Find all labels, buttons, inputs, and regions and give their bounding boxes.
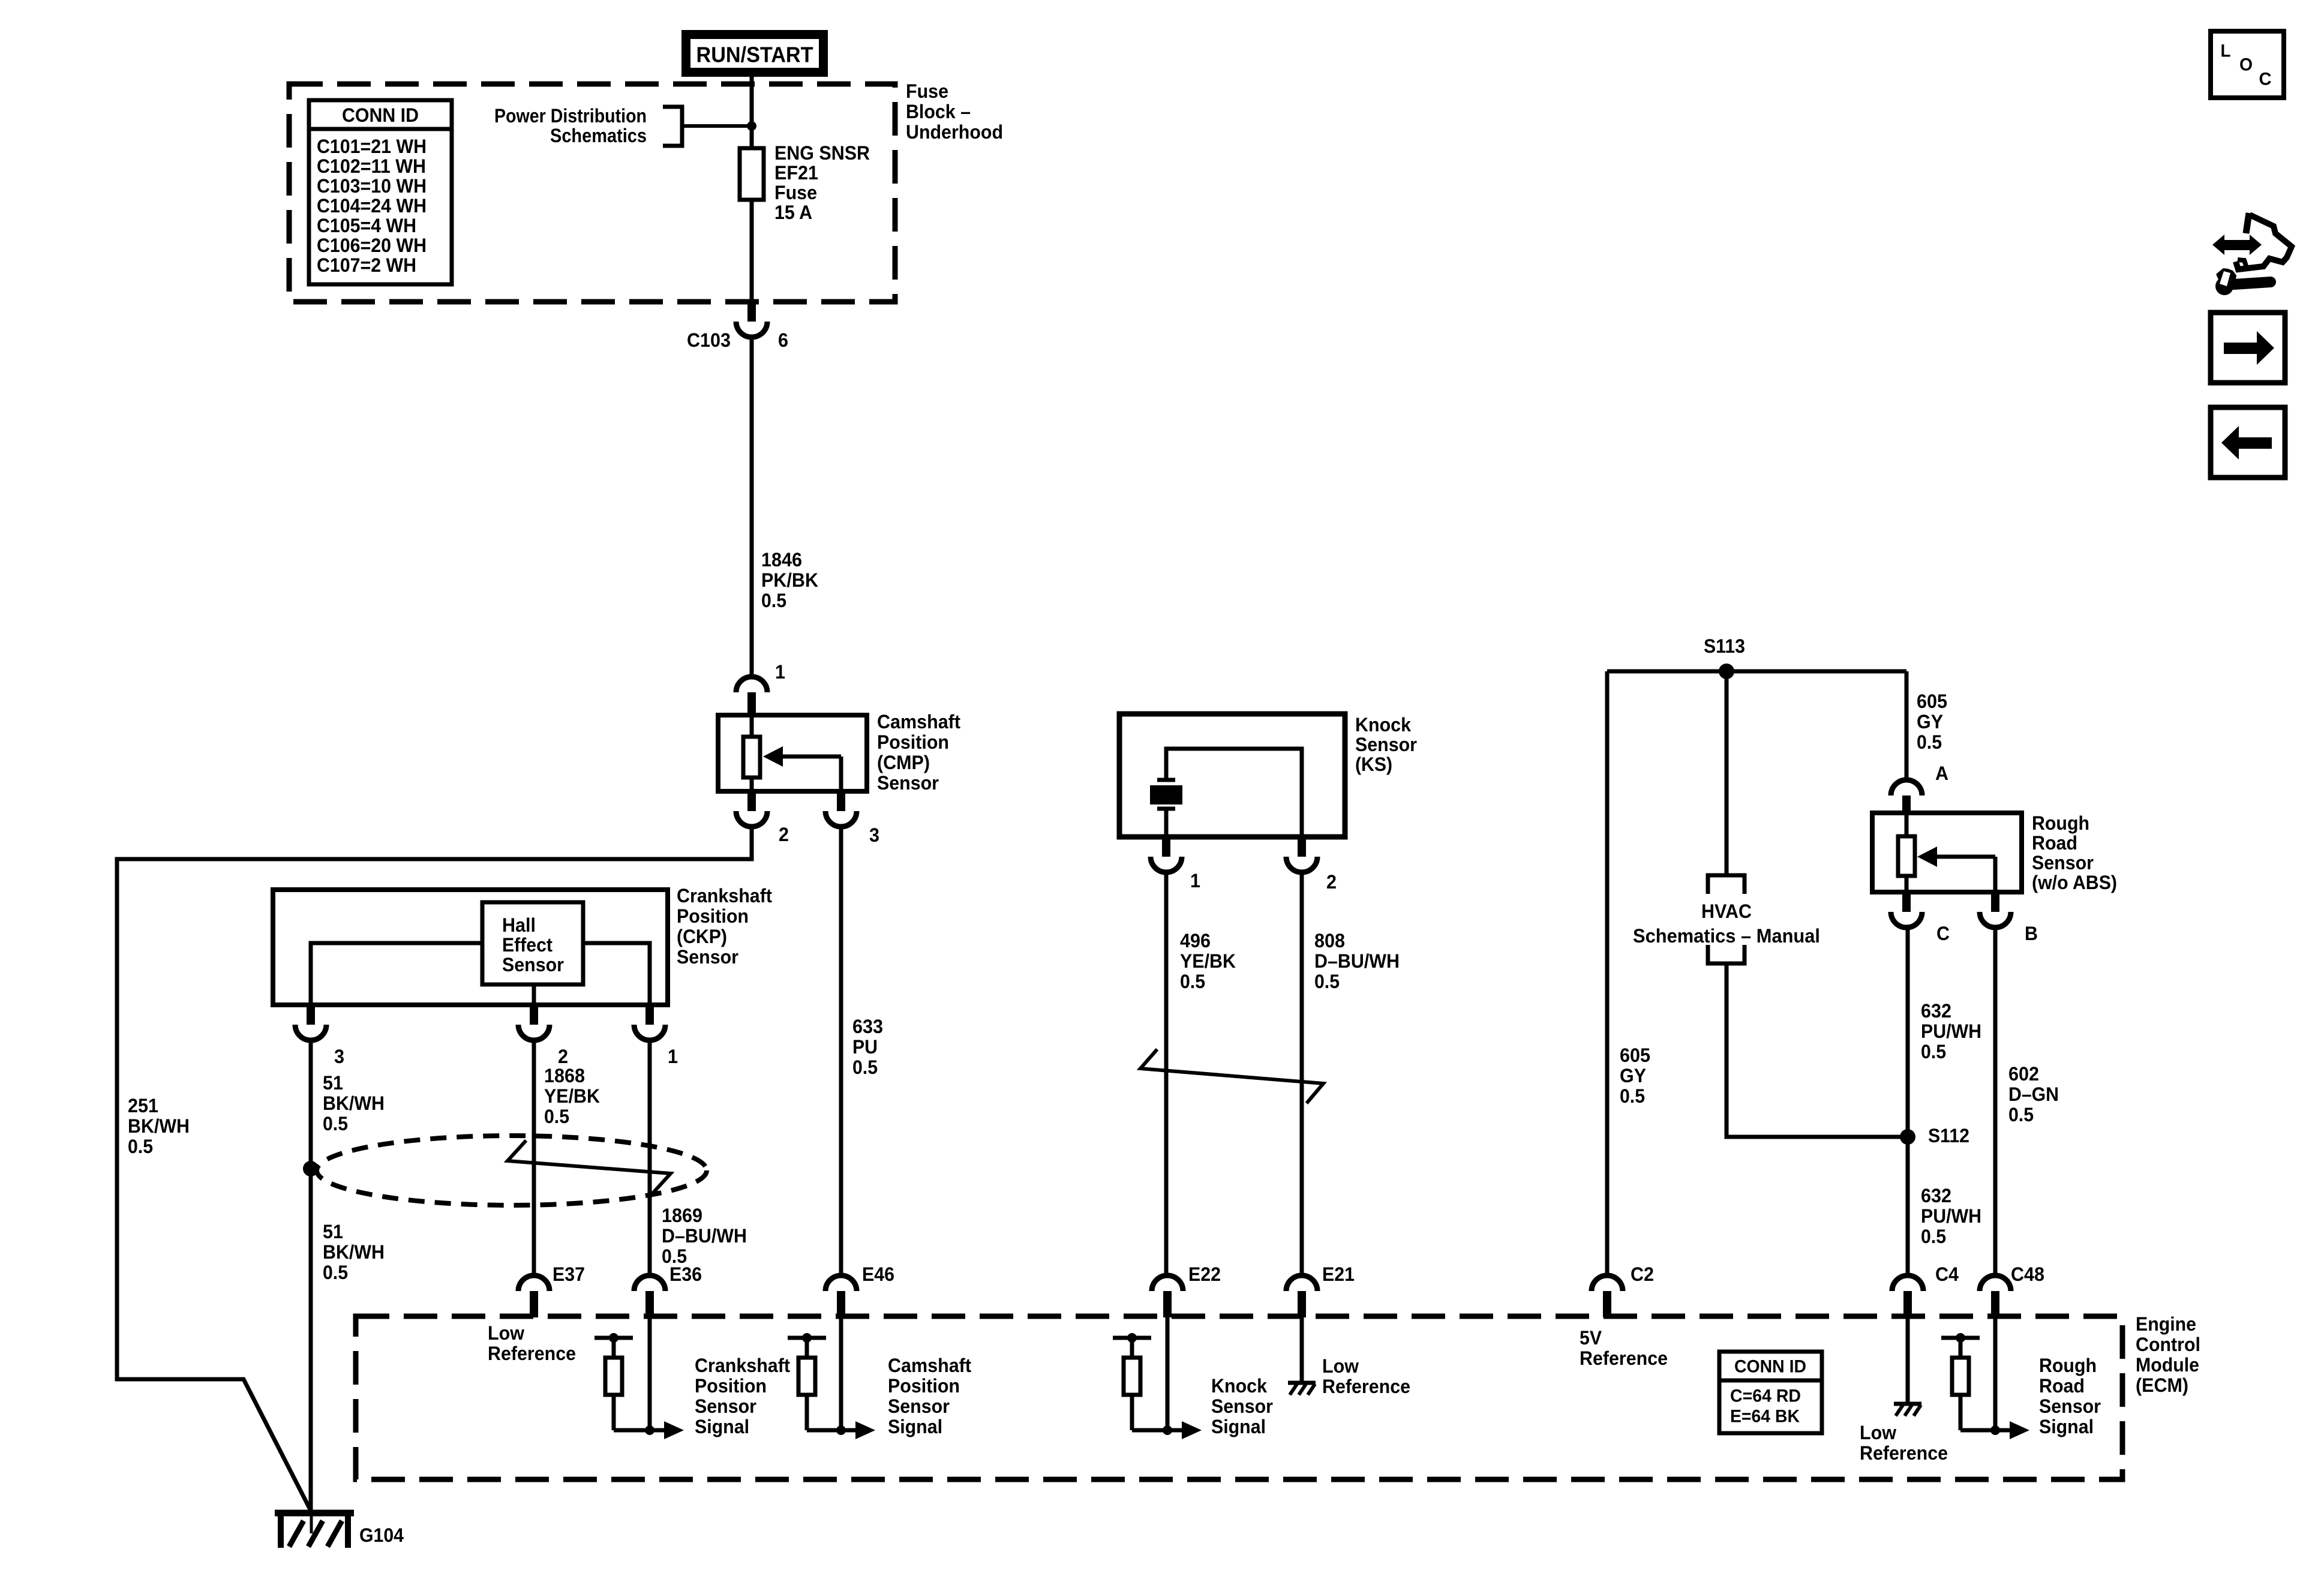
label: circuit 602 D-GN 0.5 — [2008, 1063, 2059, 1125]
svg-text:D–GN: D–GN — [2008, 1083, 2059, 1105]
svg-text:602: 602 — [2008, 1063, 2039, 1085]
wire: C4 to internal ground — [1906, 1317, 1910, 1404]
crankshaft position sensor signal input (E36): internal pull-up resistor — [594, 1333, 664, 1430]
label: Knock Sensor (KS) — [1355, 714, 1417, 775]
svg-text:633: 633 — [852, 1016, 883, 1037]
knock sensor signal input (E22): signal wire into ECM with junction and arrow — [1163, 1317, 1202, 1439]
wire 51 BK/WH: CKP pin 3 to G104 — [309, 1040, 313, 1512]
KS internal piezo element — [1150, 749, 1302, 837]
svg-text:YE/BK: YE/BK — [1180, 950, 1236, 972]
junction dot on wire 51 at shield — [303, 1161, 319, 1176]
svg-text:1869: 1869 — [662, 1205, 702, 1226]
svg-text:3: 3 — [869, 824, 879, 846]
svg-text:C: C — [1936, 923, 1950, 944]
svg-text:1846: 1846 — [761, 549, 802, 571]
svg-text:Sensor: Sensor — [888, 1395, 950, 1417]
svg-text:Reference: Reference — [1580, 1347, 1668, 1369]
label: circuit 1869 D-BU/WH 0.5 — [662, 1205, 747, 1267]
svg-text:(w/o ABS): (w/o ABS) — [2032, 872, 2117, 893]
svg-text:1868: 1868 — [544, 1065, 585, 1086]
label: knock sensor signal input (E22) — [1211, 1375, 1273, 1437]
svg-text:HVAC: HVAC — [1701, 900, 1752, 922]
svg-text:Rough: Rough — [2032, 812, 2089, 834]
svg-text:51: 51 — [323, 1221, 343, 1242]
knock sensor (KS) box — [1119, 714, 1345, 837]
svg-text:632: 632 — [1921, 1000, 1951, 1022]
label: Low Reference (E21) — [1322, 1355, 1410, 1397]
off-page reference bracket (power distribution) — [663, 107, 682, 146]
LOC icon box — [2211, 31, 2284, 98]
svg-text:E=64 BK: E=64 BK — [1730, 1407, 1800, 1427]
svg-text:Block –: Block – — [906, 101, 971, 122]
CONN ID table rows — [317, 136, 427, 276]
connector ECM terminal E21 — [1286, 1275, 1317, 1317]
wire: HVAC reference down to S112 — [1727, 963, 1908, 1137]
svg-text:E36: E36 — [669, 1263, 702, 1285]
svg-text:Schematics: Schematics — [550, 125, 647, 146]
svg-text:Signal: Signal — [888, 1416, 942, 1437]
hall effect sensor box — [482, 902, 583, 984]
svg-text:1: 1 — [1190, 870, 1200, 891]
svg-text:BK/WH: BK/WH — [128, 1115, 190, 1137]
svg-text:2: 2 — [1326, 871, 1337, 893]
svg-text:Fuse: Fuse — [906, 80, 948, 102]
label: circuit 496 YE/BK 0.5 — [1180, 930, 1236, 992]
svg-text:C104=24 WH: C104=24 WH — [317, 195, 427, 217]
wire: RUN/START down through fuse to C103 — [750, 77, 754, 302]
label: circuit 51 BK/WH 0.5 (lower) — [323, 1221, 385, 1283]
svg-text:15 A: 15 A — [774, 202, 812, 223]
wire 496 YE/BK: KS pin 1 to E22 — [1164, 872, 1169, 1277]
svg-text:PK/BK: PK/BK — [761, 569, 818, 591]
svg-text:G104: G104 — [359, 1524, 404, 1546]
svg-text:Engine: Engine — [2136, 1313, 2196, 1335]
svg-text:6: 6 — [778, 329, 788, 351]
splice S113 — [1719, 664, 1734, 679]
svg-text:Signal: Signal — [695, 1416, 749, 1437]
label: circuit 51 BK/WH 0.5 (upper) — [323, 1072, 385, 1134]
label: Engine Control Module (ECM) — [2136, 1313, 2200, 1396]
svg-text:E21: E21 — [1322, 1263, 1355, 1285]
svg-text:Camshaft: Camshaft — [877, 711, 960, 733]
svg-text:Sensor: Sensor — [677, 946, 738, 968]
svg-text:Reference: Reference — [1322, 1376, 1410, 1397]
svg-text:Sensor: Sensor — [1211, 1395, 1273, 1417]
connector ECM terminal E46 — [825, 1275, 857, 1317]
svg-text:S112: S112 — [1928, 1125, 1969, 1146]
vehicle/wrench icon — [2212, 213, 2292, 295]
label: Fuse Block - Underhood — [906, 80, 1003, 143]
svg-text:PU: PU — [852, 1036, 878, 1058]
wire 808 D-BU/WH: KS pin 2 to E21 — [1300, 872, 1304, 1277]
svg-text:Position: Position — [695, 1375, 767, 1397]
connector CMP pin 3 — [825, 791, 857, 827]
fuse block - underhood (dashed box) — [289, 84, 895, 302]
svg-text:BK/WH: BK/WH — [323, 1241, 385, 1263]
rough road sensor signal input (C48): internal pull-up resistor — [1941, 1333, 2010, 1430]
shield ellipse (dashed) around CKP wires — [317, 1136, 707, 1205]
fuse ENG SNSR EF21 15A — [740, 148, 764, 200]
ground symbol (E21 low reference) — [1288, 1383, 1316, 1395]
svg-text:Crankshaft: Crankshaft — [677, 885, 772, 906]
svg-text:E46: E46 — [862, 1263, 894, 1285]
connector RRS pin C — [1891, 892, 1922, 927]
connector ECM terminal E36 — [634, 1275, 665, 1317]
svg-text:Crankshaft: Crankshaft — [695, 1355, 790, 1376]
svg-text:605: 605 — [1917, 691, 1947, 712]
svg-text:PU/WH: PU/WH — [1921, 1205, 1981, 1227]
svg-text:C4: C4 — [1935, 1263, 1959, 1285]
svg-text:Sensor: Sensor — [2032, 852, 2094, 873]
svg-text:GY: GY — [1620, 1065, 1646, 1086]
forward arrow icon — [2211, 313, 2285, 383]
label: circuit 633 PU 0.5 — [852, 1016, 883, 1078]
label: circuit 605 GY 0.5 (left) — [1620, 1044, 1650, 1107]
connector ECM terminal C2 — [1592, 1275, 1623, 1317]
svg-text:0.5: 0.5 — [128, 1136, 153, 1157]
crankshaft position (CKP) sensor box — [273, 890, 668, 1005]
svg-text:Control: Control — [2136, 1334, 2200, 1355]
rough road sensor signal input (C48): signal wire into ECM with junction and arrow — [1990, 1317, 2029, 1439]
engine control module (ECM) dashed box — [356, 1316, 2122, 1479]
label: ENG SNSR EF21 Fuse 15 A — [774, 142, 870, 223]
svg-text:YE/BK: YE/BK — [544, 1085, 600, 1107]
svg-text:Sensor: Sensor — [1355, 734, 1417, 755]
connector ECM terminal C4 — [1892, 1275, 1923, 1317]
svg-text:RUN/START: RUN/START — [696, 43, 813, 67]
svg-text:0.5: 0.5 — [544, 1106, 569, 1127]
svg-text:251: 251 — [128, 1095, 158, 1116]
label: circuit 808 D-BU/WH 0.5 — [1314, 930, 1400, 992]
svg-text:(ECM): (ECM) — [2136, 1374, 2188, 1396]
label: Crankshaft Position (CKP) Sensor — [677, 885, 772, 968]
svg-text:Road: Road — [2032, 832, 2077, 854]
svg-text:Signal: Signal — [1211, 1416, 1266, 1437]
off-page reference bracket (HVAC bottom) — [1708, 945, 1744, 963]
connector KS pin 2 — [1286, 837, 1317, 872]
CKP internal wiring — [311, 943, 650, 1005]
svg-text:605: 605 — [1620, 1044, 1650, 1066]
ground symbol (C4 low reference) — [1894, 1404, 1921, 1416]
svg-text:0.5: 0.5 — [2008, 1104, 2034, 1125]
svg-text:496: 496 — [1180, 930, 1211, 951]
svg-text:Sensor: Sensor — [2039, 1395, 2101, 1417]
label: Hall Effect Sensor — [502, 914, 564, 975]
label: crankshaft position sensor signal input (E36) — [695, 1355, 790, 1437]
switch RUN/START — [681, 30, 828, 77]
svg-text:0.5: 0.5 — [1921, 1041, 1946, 1062]
svg-text:0.5: 0.5 — [323, 1262, 348, 1283]
label: circuit 632 PU/WH 0.5 (upper) — [1921, 1000, 1981, 1062]
svg-text:GY: GY — [1917, 711, 1943, 733]
wire: bracket to RUN/START feed — [682, 124, 752, 128]
twisted pair marker (CKP wires) — [508, 1140, 671, 1194]
svg-text:Reference: Reference — [488, 1343, 576, 1364]
svg-text:C106=20 WH: C106=20 WH — [317, 235, 427, 256]
svg-text:L: L — [2221, 41, 2231, 61]
svg-text:C=64 RD: C=64 RD — [1730, 1386, 1801, 1406]
wire 1846 PK/BK 0.5: C103 to CMP pin 1 — [750, 337, 754, 677]
svg-text:S113: S113 — [1704, 635, 1745, 657]
svg-text:C107=2 WH: C107=2 WH — [317, 254, 416, 276]
camshaft position (CMP) sensor box — [718, 715, 867, 791]
svg-text:1: 1 — [668, 1046, 678, 1067]
svg-text:Low: Low — [488, 1322, 524, 1344]
svg-text:Position: Position — [888, 1375, 960, 1397]
connector CKP pin 2 — [518, 1005, 550, 1040]
label: circuit 251 BK/WH 0.5 — [128, 1095, 190, 1157]
connector CMP pin 1 — [736, 677, 767, 715]
svg-text:Hall: Hall — [502, 914, 536, 936]
svg-text:A: A — [1935, 763, 1948, 784]
svg-text:0.5: 0.5 — [1917, 731, 1942, 753]
connector RRS pin A — [1891, 780, 1922, 813]
label: 5V Reference (C2) — [1580, 1327, 1668, 1369]
camshaft position sensor signal input (E46): internal pull-up resistor — [788, 1333, 855, 1430]
svg-text:C103=10 WH: C103=10 WH — [317, 175, 427, 197]
svg-text:(CMP): (CMP) — [877, 752, 930, 773]
svg-text:C102=11 WH: C102=11 WH — [317, 155, 426, 177]
svg-text:C48: C48 — [2011, 1263, 2044, 1285]
connector C103 pin 6 — [736, 302, 767, 337]
svg-text:2: 2 — [779, 824, 789, 845]
svg-text:51: 51 — [323, 1072, 343, 1094]
label: circuit 1846 PK/BK 0.5 — [761, 549, 818, 611]
label: camshaft position sensor signal input (E46) — [888, 1355, 971, 1437]
wire 251 BK/WH: CMP pin 2 left and down to G104 — [117, 827, 752, 1512]
wire: E21 to internal ground — [1300, 1317, 1304, 1383]
svg-text:Sensor: Sensor — [695, 1395, 756, 1417]
connector ECM terminal E22 — [1152, 1275, 1183, 1317]
svg-text:C105=4 WH: C105=4 WH — [317, 215, 416, 236]
svg-text:2: 2 — [558, 1046, 568, 1067]
svg-text:Low: Low — [1322, 1355, 1359, 1377]
wire: 5V reference bus (S113 horizontal) — [1607, 670, 1906, 674]
svg-text:E22: E22 — [1188, 1263, 1221, 1285]
rough road sensor box — [1872, 813, 2022, 892]
svg-text:Schematics – Manual: Schematics – Manual — [1633, 925, 1820, 947]
CMP internal variable sensor element — [743, 715, 841, 791]
wire 1868 YE/BK: CKP pin 2 to E37 — [532, 1040, 536, 1277]
svg-text:Road: Road — [2039, 1375, 2085, 1397]
connector KS pin 1 — [1151, 837, 1182, 872]
svg-text:Position: Position — [677, 905, 749, 927]
svg-text:B: B — [2025, 923, 2038, 944]
connector ECM terminal C48 — [1980, 1275, 2011, 1317]
svg-text:3: 3 — [334, 1046, 344, 1067]
svg-text:Sensor: Sensor — [877, 772, 939, 794]
label: Rough Road Sensor (w/o ABS) — [2032, 812, 2117, 893]
svg-text:0.5: 0.5 — [1314, 971, 1340, 992]
connector RRS pin B — [1980, 892, 2011, 927]
svg-text:Module: Module — [2136, 1354, 2199, 1376]
twisted pair marker (KS wires) — [1140, 1049, 1323, 1103]
svg-text:Reference: Reference — [1860, 1442, 1948, 1464]
svg-text:E37: E37 — [553, 1263, 585, 1285]
label: circuit 605 GY 0.5 (right) — [1917, 691, 1947, 753]
label: circuit 1868 YE/BK 0.5 — [544, 1065, 600, 1127]
label: Low Reference (C4) — [1860, 1422, 1948, 1464]
svg-text:0.5: 0.5 — [852, 1056, 878, 1078]
connector ECM terminal E37 — [518, 1275, 550, 1317]
label: Camshaft Position (CMP) Sensor — [877, 711, 960, 794]
svg-text:0.5: 0.5 — [1921, 1226, 1946, 1247]
svg-text:632: 632 — [1921, 1185, 1951, 1206]
knock sensor signal input (E22): internal pull-up resistor — [1113, 1333, 1182, 1430]
wire 605 GY: S113 right to connector A — [1905, 671, 1909, 780]
svg-text:Sensor: Sensor — [502, 954, 564, 975]
CONN ID table (ECM) — [1719, 1352, 1822, 1433]
splice S112 — [1900, 1129, 1915, 1145]
CONN ID table (fuse block) — [309, 100, 452, 284]
svg-text:EF21: EF21 — [774, 162, 818, 184]
svg-text:D–BU/WH: D–BU/WH — [662, 1225, 747, 1247]
svg-text:Effect: Effect — [502, 934, 553, 956]
svg-text:Camshaft: Camshaft — [888, 1355, 971, 1376]
svg-text:Low: Low — [1860, 1422, 1896, 1443]
junction dot on RUN/START feed — [747, 121, 756, 131]
ground G104 — [275, 1513, 354, 1548]
svg-text:PU/WH: PU/WH — [1921, 1020, 1981, 1042]
wire 1869 D-BU/WH: CKP pin 1 to E36 — [648, 1040, 652, 1277]
svg-text:Knock: Knock — [1211, 1375, 1267, 1397]
svg-text:Knock: Knock — [1355, 714, 1411, 736]
off-page reference bracket (HVAC top) — [1708, 875, 1744, 894]
svg-text:Signal: Signal — [2039, 1416, 2094, 1437]
svg-text:C103: C103 — [687, 329, 731, 351]
svg-text:CONN ID: CONN ID — [342, 104, 419, 126]
wire 605 GY: S113 down to C2 — [1605, 671, 1610, 1277]
label: Low Reference (E37) — [488, 1322, 576, 1364]
label: circuit 632 PU/WH 0.5 (lower) — [1921, 1185, 1981, 1247]
svg-text:0.5: 0.5 — [1180, 971, 1205, 992]
svg-text:(CKP): (CKP) — [677, 926, 727, 947]
svg-text:Fuse: Fuse — [774, 182, 817, 203]
svg-text:Power Distribution: Power Distribution — [494, 105, 647, 127]
svg-text:(KS): (KS) — [1355, 754, 1392, 775]
RRS internal variable sensor element — [1898, 813, 1995, 892]
connector CMP pin 2 — [736, 791, 767, 827]
svg-text:1: 1 — [775, 661, 785, 683]
svg-text:C2: C2 — [1631, 1263, 1654, 1285]
svg-text:0.5: 0.5 — [1620, 1085, 1645, 1107]
crankshaft position sensor signal input (E36): signal wire into ECM with junction and arrow — [645, 1317, 684, 1439]
svg-text:Rough: Rough — [2039, 1355, 2097, 1376]
svg-text:808: 808 — [1314, 930, 1345, 951]
svg-text:Position: Position — [877, 731, 949, 753]
svg-text:BK/WH: BK/WH — [323, 1092, 385, 1114]
connector CKP pin 1 — [634, 1005, 665, 1040]
label: rough road sensor signal input (C48) — [2039, 1355, 2101, 1437]
wire 633 PU: CMP pin 3 down to E46 — [839, 827, 843, 1277]
svg-text:C: C — [2259, 70, 2272, 89]
svg-text:Underhood: Underhood — [906, 121, 1003, 143]
svg-text:5V: 5V — [1580, 1327, 1602, 1349]
camshaft position sensor signal input (E46): signal wire into ECM with junction and arrow — [836, 1317, 875, 1439]
wire 632 PU/WH: RRS pin C through S112 to C4 — [1906, 927, 1910, 1277]
wire: S113 to HVAC reference — [1725, 671, 1729, 875]
back arrow icon — [2211, 407, 2285, 478]
svg-text:ENG SNSR: ENG SNSR — [774, 142, 870, 164]
svg-text:C101=21 WH: C101=21 WH — [317, 136, 427, 157]
wire 602 D-GN: RRS pin B to C48 — [1993, 927, 1998, 1277]
svg-text:D–BU/WH: D–BU/WH — [1314, 950, 1400, 972]
svg-text:0.5: 0.5 — [761, 590, 786, 611]
svg-text:0.5: 0.5 — [323, 1113, 348, 1134]
svg-text:O: O — [2239, 55, 2253, 75]
connector CKP pin 3 — [295, 1005, 326, 1040]
svg-text:CONN ID: CONN ID — [1734, 1357, 1806, 1377]
